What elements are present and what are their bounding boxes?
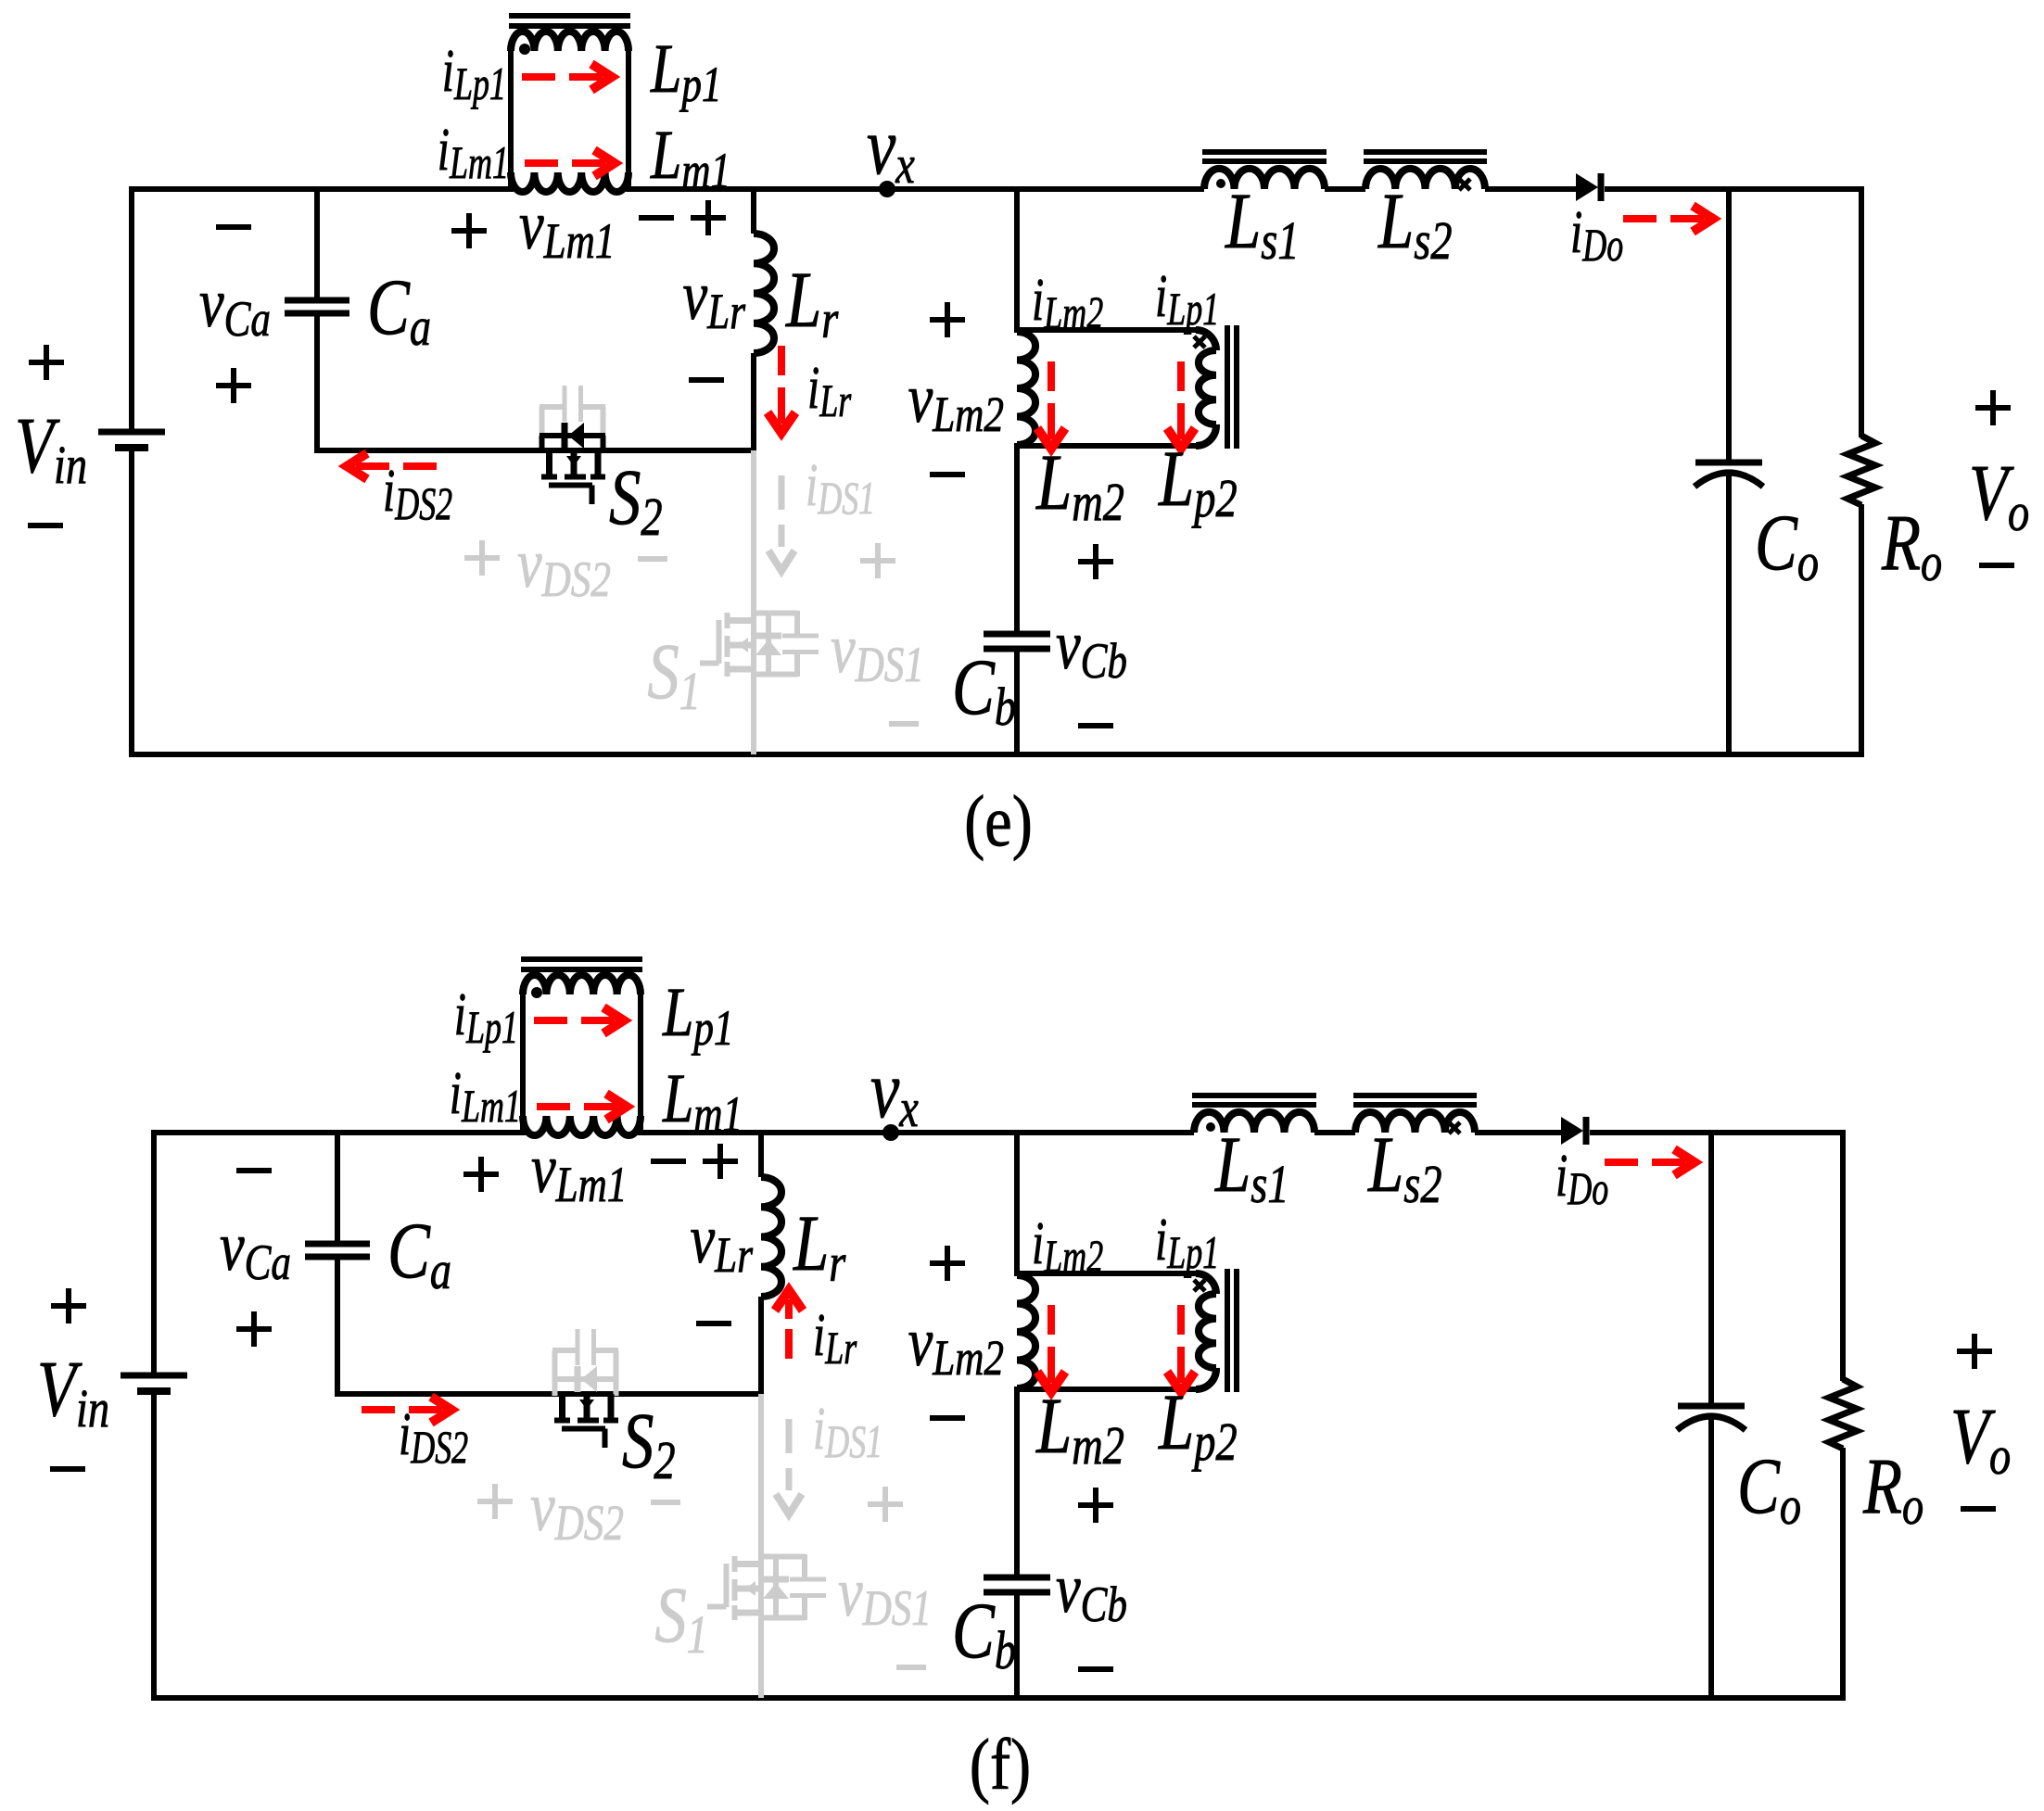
current arrow iLr (e) — [768, 346, 795, 433]
wire top rail between Ls1 Ls2 (f) — [1314, 1130, 1355, 1135]
label vCa (f) — [220, 1208, 291, 1291]
wire T2 top (e) — [1014, 327, 1196, 333]
wire T2 bottom (e) — [1014, 443, 1196, 449]
inductor Ls2 (e) — [1365, 169, 1485, 189]
label Ls1 (f) — [1214, 1121, 1289, 1214]
label Vo minus (f) — [1961, 1506, 1996, 1512]
caption (f) — [970, 1725, 1031, 1805]
label vLm1 plus right (f) — [703, 1144, 738, 1179]
current arrow iDS2 (f) — [362, 1397, 451, 1423]
current arrow iLp2 (f) — [1167, 1305, 1195, 1392]
capacitor Ca (e) — [285, 300, 349, 313]
label vCb minus (f) — [1078, 1666, 1113, 1672]
core T1 (f) — [521, 959, 642, 969]
label vLm2 (e) — [908, 360, 1004, 443]
wire S1 branch (e) — [751, 450, 756, 754]
label Lr (e) — [785, 256, 839, 349]
label vCb (e) — [1056, 606, 1127, 690]
core Ls2 (f) — [1353, 1095, 1477, 1105]
label Vo plus (e) — [1975, 390, 2011, 425]
transistor S1 (f) — [707, 1554, 826, 1620]
label Ca (e) — [367, 263, 431, 357]
wire top rail middle (f) — [641, 1130, 1194, 1135]
label Ro (e) — [1881, 499, 1942, 592]
inductor Lp2 winding (f) — [1196, 1273, 1216, 1389]
wire left branch lower (e) — [129, 448, 134, 757]
label Lp2 (e) — [1158, 435, 1238, 528]
label iLp1 (e) — [442, 38, 506, 110]
wire T1 right vertical (e) — [626, 51, 631, 192]
wire inner row (f) — [335, 1391, 764, 1397]
inductor Ls1 (e) — [1204, 169, 1325, 189]
label Vin (f) — [37, 1345, 109, 1438]
transistor S2 (f) — [552, 1329, 618, 1448]
wire mid branch upper (e) — [1014, 189, 1020, 332]
label iDS1 (e) — [806, 452, 875, 525]
wire top rail left (f) — [154, 1130, 523, 1135]
wire top rail diode to output (f) — [1590, 1130, 1846, 1135]
polarity mark Lp2 (e) — [1194, 336, 1205, 348]
polarity mark Lp2 (f) — [1194, 1280, 1205, 1291]
label vLm2 (f) — [908, 1303, 1004, 1387]
label vx (f) — [870, 1045, 919, 1139]
label vCb plus (e) — [1078, 544, 1113, 579]
label S1 (e) — [647, 627, 701, 721]
current arrow iLp1 (f) — [534, 1007, 624, 1033]
wire bottom rail (f) — [151, 1695, 1846, 1701]
capacitor Co (f) — [1677, 1406, 1746, 1430]
wire inner row (e) — [314, 448, 756, 453]
label Vin minus (f) — [50, 1466, 85, 1472]
label Ro (f) — [1862, 1442, 1923, 1536]
label S2 (f) — [622, 1397, 676, 1490]
label Lm1 (f) — [662, 1059, 743, 1143]
label iLp1 (f) — [454, 981, 518, 1054]
label Co (e) — [1755, 499, 1819, 592]
core T2 (f) — [1227, 1269, 1237, 1392]
label vLm2 minus (e) — [930, 472, 965, 477]
inductor Ls2 (f) — [1355, 1112, 1475, 1133]
label vDS2 plus (f) — [477, 1484, 513, 1519]
current arrow iLp2 (e) — [1167, 361, 1195, 449]
wire Cb lower (f) — [1014, 1592, 1020, 1698]
label vCb (f) — [1056, 1550, 1127, 1633]
label vDS1 (f) — [838, 1553, 932, 1637]
current arrow iLr (f) — [775, 1290, 803, 1359]
label vLr minus (f) — [696, 1321, 731, 1326]
current arrow iDS1 (f) — [776, 1419, 802, 1514]
label iLp1 T2 (e) — [1155, 263, 1219, 336]
label Lp2 (f) — [1158, 1378, 1238, 1472]
transistor S2 (e) — [540, 386, 605, 504]
label Ls2 (f) — [1367, 1121, 1441, 1214]
wire top rail Ls2 to diode (e) — [1485, 186, 1576, 192]
label Vo (f) — [1950, 1392, 2011, 1486]
wire top rail Ls2 to diode (f) — [1475, 1130, 1561, 1135]
wire top rail left (e) — [132, 186, 511, 192]
wire Lr lower (f) — [758, 1297, 764, 1397]
wire left branch upper (f) — [151, 1130, 157, 1375]
label vCb plus (f) — [1078, 1488, 1113, 1523]
label vCa plus (f) — [236, 1311, 272, 1347]
svg-text:(e): (e) — [964, 781, 1033, 861]
current arrow iLm1 (f) — [537, 1094, 627, 1120]
wire Co branch (e) — [1726, 189, 1732, 754]
current arrow iLm2 (e) — [1037, 361, 1065, 449]
label vLm1 (f) — [531, 1130, 627, 1213]
label S2 (e) — [609, 453, 663, 547]
current arrow iDS1 (e) — [768, 475, 794, 571]
current arrow iDo (e) — [1623, 206, 1713, 232]
node vx (f) — [882, 1124, 899, 1141]
polarity dot Ls1 (f) — [1206, 1122, 1215, 1132]
label iLm2 (e) — [1032, 267, 1103, 339]
label iDS1 (f) — [813, 1396, 882, 1468]
wire top rail diode to output (e) — [1605, 186, 1864, 192]
wire Cb upper (f) — [1014, 1389, 1020, 1577]
label iLr (f) — [813, 1302, 857, 1374]
capacitor Ca (f) — [305, 1244, 370, 1257]
label Lm2 (e) — [1035, 438, 1124, 532]
battery Vin (f) — [121, 1375, 187, 1391]
polarity dot Lp1 (e) — [519, 44, 530, 55]
inductor Lr (e) — [754, 234, 774, 353]
inductor Lm2 winding (e) — [1017, 332, 1035, 445]
wire Ca branch upper (e) — [314, 189, 320, 300]
wire T1 left vertical (f) — [520, 994, 526, 1135]
wire Ca branch upper (f) — [335, 1133, 340, 1244]
wire Cb upper (e) — [1014, 446, 1020, 634]
wire right branch Ro lower (e) — [1859, 504, 1864, 757]
wire bottom rail (e) — [129, 752, 1864, 757]
wire T2 bottom (f) — [1014, 1387, 1196, 1392]
label vCa minus (e) — [216, 224, 251, 230]
wire top rail middle (e) — [628, 186, 1204, 192]
core Ls2 (e) — [1364, 152, 1487, 161]
label vLm1 plus left (e) — [451, 213, 487, 248]
label Lm1 (e) — [650, 116, 730, 199]
capacitor Cb (f) — [984, 1577, 1050, 1592]
current arrow iDo (f) — [1605, 1149, 1695, 1175]
label Lr (f) — [793, 1199, 846, 1293]
label vCa plus (e) — [216, 368, 251, 403]
label Co (f) — [1737, 1442, 1801, 1536]
inductor Lp1 winding (f) — [523, 975, 641, 994]
label Lm2 (f) — [1035, 1382, 1124, 1475]
label Lp1 (e) — [650, 30, 721, 113]
core Ls1 (e) — [1202, 152, 1327, 161]
current arrow iLp1 (e) — [522, 64, 612, 90]
label Vo minus (e) — [1979, 563, 2014, 568]
label vLm1 minus (f) — [651, 1159, 686, 1164]
wire Lr upper (f) — [758, 1133, 764, 1177]
label vDS1 plus (f) — [868, 1487, 903, 1522]
label vLm1 minus (e) — [639, 215, 674, 221]
wire Cb lower (e) — [1014, 649, 1020, 754]
wire T1 left vertical (e) — [508, 51, 514, 192]
label vLr (f) — [691, 1200, 754, 1284]
label Ca (f) — [387, 1207, 451, 1300]
label vLm2 plus (e) — [930, 302, 965, 337]
core T1 (e) — [509, 16, 630, 26]
label vCa (e) — [199, 264, 271, 348]
polarity mark Ls2 (e) — [1459, 179, 1470, 190]
label vCb minus (e) — [1078, 723, 1113, 728]
wire Co branch (f) — [1708, 1133, 1714, 1698]
label iLr (e) — [807, 355, 852, 427]
polarity dot Ls1 (e) — [1216, 179, 1225, 188]
wire top rail between Ls1 Ls2 (e) — [1325, 186, 1365, 192]
label vDS2 minus (e) — [638, 556, 667, 562]
label Cb (f) — [952, 1587, 1016, 1680]
polarity mark Ls2 (f) — [1449, 1122, 1460, 1133]
current arrow iDS2 (e) — [347, 453, 437, 479]
caption (e) — [964, 781, 1033, 861]
wire T1 right vertical (f) — [638, 994, 643, 1135]
wire right branch Ro lower (f) — [1840, 1448, 1846, 1701]
label vLm1 plus right (e) — [691, 200, 726, 235]
label iDS2 (e) — [383, 458, 452, 530]
wire T2 top (f) — [1014, 1271, 1196, 1276]
label iLm1 (e) — [438, 117, 509, 189]
label vLr (e) — [683, 257, 746, 340]
wire Lr lower (e) — [751, 353, 756, 453]
label iLm2 (f) — [1032, 1210, 1103, 1283]
label vLm2 plus (f) — [930, 1246, 965, 1281]
current arrow iLm1 (e) — [525, 150, 615, 176]
inductor Lm2 winding (f) — [1017, 1275, 1035, 1388]
label vx (e) — [867, 102, 915, 196]
label vCa minus (f) — [236, 1168, 272, 1173]
label vDS1 (e) — [831, 610, 924, 693]
wire left branch lower (f) — [151, 1391, 157, 1701]
label vLm2 minus (f) — [930, 1415, 965, 1421]
label vDS2 (e) — [517, 525, 611, 608]
label Vin plus (e) — [29, 345, 64, 380]
inductor Ls1 (f) — [1194, 1112, 1314, 1133]
inductor Lm1 winding (e) — [511, 172, 628, 192]
label iLp1 T2 (f) — [1155, 1207, 1219, 1279]
wire S1 branch (f) — [758, 1394, 764, 1698]
resistor Ro (e) — [1847, 436, 1875, 505]
wire right branch Ro upper (f) — [1840, 1130, 1846, 1381]
label iDo (f) — [1555, 1143, 1608, 1215]
label vLm1 plus left (f) — [463, 1157, 499, 1192]
label vLr minus (e) — [689, 377, 724, 383]
wire left branch upper (e) — [129, 186, 134, 432]
label Ls2 (e) — [1377, 177, 1452, 271]
inductor Lp1 winding (e) — [511, 32, 628, 51]
svg-text:(f): (f) — [970, 1725, 1031, 1805]
inductor Lr (f) — [761, 1177, 781, 1297]
resistor Ro (f) — [1829, 1379, 1857, 1449]
core Ls1 (f) — [1192, 1095, 1316, 1105]
label Vin (e) — [15, 401, 87, 495]
label vLm1 (e) — [519, 186, 615, 270]
label Lp1 (f) — [662, 973, 733, 1057]
diode Do (f) — [1561, 1117, 1586, 1145]
wire right branch Ro upper (e) — [1859, 186, 1864, 437]
label vDS2 minus (f) — [651, 1500, 680, 1505]
capacitor Cb (e) — [984, 634, 1050, 649]
label iDo (e) — [1570, 199, 1623, 272]
label Vin plus (f) — [51, 1288, 86, 1323]
diode Do (e) — [1576, 173, 1601, 201]
label vDS1 plus (e) — [860, 543, 895, 578]
transistor S1 (e) — [700, 611, 819, 677]
label Vin minus (e) — [28, 523, 63, 528]
label Vo plus (f) — [1957, 1334, 1992, 1369]
wire Ca branch lower (e) — [314, 313, 320, 453]
wire mid branch upper (f) — [1014, 1133, 1020, 1275]
label Cb (e) — [952, 643, 1016, 737]
label vDS2 (f) — [530, 1468, 624, 1551]
label iLm1 (f) — [450, 1060, 521, 1133]
label S1 (f) — [654, 1571, 708, 1665]
current arrow iLm2 (f) — [1037, 1305, 1065, 1392]
label iDS2 (f) — [399, 1401, 468, 1474]
wire Lr upper (e) — [751, 189, 756, 234]
wire Ca branch lower (f) — [335, 1257, 340, 1397]
battery Vin (e) — [98, 432, 165, 448]
label vDS1 minus (e) — [889, 721, 919, 727]
inductor Lm1 winding (f) — [523, 1116, 641, 1135]
label vDS1 minus (f) — [896, 1665, 926, 1670]
label Vo (e) — [1969, 449, 2029, 542]
capacitor Co (e) — [1695, 462, 1763, 487]
label Ls1 (e) — [1225, 177, 1299, 271]
core T2 (e) — [1227, 325, 1237, 449]
inductor Lp2 winding (e) — [1196, 330, 1216, 446]
polarity dot Lp1 (f) — [531, 987, 542, 998]
node vx (e) — [879, 181, 895, 197]
label vDS2 plus (e) — [464, 540, 500, 576]
